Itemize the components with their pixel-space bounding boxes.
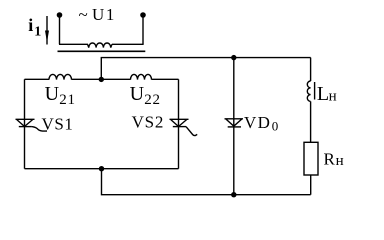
wire secondary top middle segment <box>72 78 131 80</box>
svg-text:U: U <box>130 83 145 105</box>
svg-text:R: R <box>324 149 336 168</box>
resistor Rn <box>304 142 318 175</box>
wire primary right horizontal <box>112 43 144 45</box>
node dot VD0 bottom <box>231 192 236 197</box>
wire primary left horizontal <box>59 43 88 45</box>
diode VD0 <box>225 119 244 127</box>
svg-text:~: ~ <box>79 5 88 24</box>
svg-text:i: i <box>28 15 33 35</box>
node dot VD0 top <box>231 55 236 60</box>
svg-text:VS2: VS2 <box>132 113 165 132</box>
wire right side <box>178 79 180 168</box>
svg-text:21: 21 <box>59 92 76 108</box>
svg-text:VS1: VS1 <box>42 115 74 134</box>
inductor Ln coil <box>307 81 310 101</box>
svg-text:0: 0 <box>272 119 279 134</box>
thyristor VS2 <box>170 119 198 135</box>
wire left side <box>24 79 26 168</box>
transformer core <box>58 50 146 52</box>
svg-text:L: L <box>317 83 329 105</box>
wire primary right vertical <box>142 15 144 44</box>
winding U21 coil <box>49 74 72 79</box>
wire right branch upper <box>310 58 312 81</box>
svg-text:н: н <box>336 153 344 169</box>
svg-text:1: 1 <box>34 25 41 40</box>
winding U22 coil <box>131 74 152 79</box>
label VD0 <box>244 113 278 134</box>
wire VD0 branch <box>233 58 235 195</box>
wire secondary top left segment <box>25 78 50 80</box>
wire secondary top right segment <box>152 78 179 80</box>
winding U1 primary coil <box>88 43 112 48</box>
label i1 <box>28 15 41 40</box>
node dot center tap <box>99 77 104 82</box>
thyristor VS1 <box>16 119 48 131</box>
wire primary left vertical <box>59 15 61 44</box>
node dot bottom center tap <box>99 166 104 171</box>
wire right branch middle <box>310 101 312 142</box>
svg-text:U: U <box>45 83 60 105</box>
node dot primary right <box>140 12 146 18</box>
label U21 <box>45 83 76 108</box>
label U22 <box>130 83 161 108</box>
inductor Ln core line <box>314 82 316 100</box>
node dot primary left <box>57 12 63 18</box>
wire center tap up and top rail <box>101 58 310 80</box>
label Rn <box>324 149 344 169</box>
wire secondary bottom <box>25 168 179 170</box>
svg-text:U1: U1 <box>92 5 116 24</box>
wire bottom center drop <box>102 169 311 195</box>
wire right branch lower <box>310 175 312 195</box>
current arrow i1 <box>45 16 49 45</box>
svg-text:VD: VD <box>244 113 271 132</box>
svg-text:н: н <box>329 89 337 105</box>
label Ln <box>317 83 337 105</box>
svg-text:22: 22 <box>144 92 161 108</box>
